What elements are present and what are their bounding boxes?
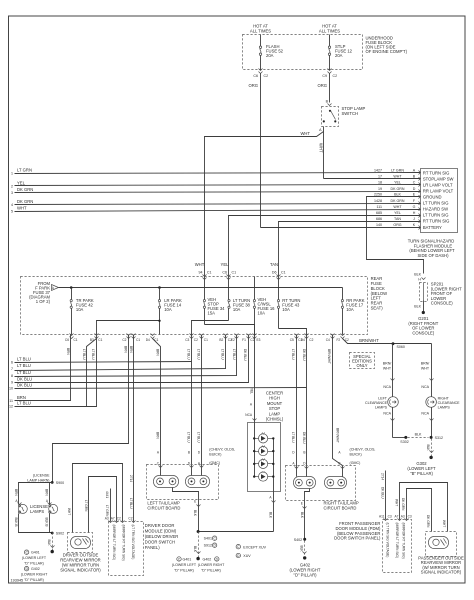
fuse STLP FUSE 12 20A xyxy=(328,35,352,71)
svg-text:OF ENGINE COMP'T): OF ENGINE COMP'T) xyxy=(366,49,408,54)
connector labels along fuse block bottom xyxy=(65,338,349,342)
lamp right clearance xyxy=(426,397,437,408)
svg-text:CIRCUIT BOARD: CIRCUIT BOARD xyxy=(147,506,180,511)
svg-text:BUICK): BUICK) xyxy=(350,453,362,457)
license lamp feed wires xyxy=(19,483,53,505)
svg-text:C4: C4 xyxy=(326,338,330,342)
svg-text:S900: S900 xyxy=(56,481,64,485)
svg-text:G: G xyxy=(413,205,416,209)
wire 6 LT BLU xyxy=(15,362,192,363)
svg-text:193945: 193945 xyxy=(11,579,24,583)
svg-text:LT BLU: LT BLU xyxy=(221,349,225,360)
svg-text:B: B xyxy=(303,450,305,454)
svg-text:BRN/: BRN/ xyxy=(421,362,430,366)
svg-text:C1: C1 xyxy=(98,338,102,342)
svg-text:RT TURN SIG: RT TURN SIG xyxy=(423,219,450,224)
row J 686 TAN xyxy=(376,217,449,224)
svg-text:DK GRN: DK GRN xyxy=(401,498,405,511)
internal wire LT TURN output xyxy=(192,321,229,335)
wire row B WHT from switch to module xyxy=(324,178,421,180)
wire ORG left fuse down to row K xyxy=(260,74,262,228)
wire LT BLU diagonal from B3 connector xyxy=(87,339,97,407)
svg-text:10A: 10A xyxy=(164,307,172,312)
svg-text:BRN: BRN xyxy=(66,348,70,355)
wire DK BLU to right tail board pin B xyxy=(306,335,308,477)
svg-text:YEL: YEL xyxy=(249,388,253,394)
svg-text:LAMPS: LAMPS xyxy=(30,509,44,514)
svg-text:B2: B2 xyxy=(219,338,223,342)
wire BLK SP201 to G201 xyxy=(423,301,425,313)
svg-text:C6: C6 xyxy=(253,74,258,78)
svg-text:"D" PILLAR): "D" PILLAR) xyxy=(24,578,44,582)
svg-text:D4: D4 xyxy=(146,338,150,342)
svg-text:11: 11 xyxy=(9,399,13,403)
svg-text:C9: C9 xyxy=(322,74,327,78)
svg-text:(LT TRN SIG VOLTAGE): (LT TRN SIG VOLTAGE) xyxy=(386,523,390,558)
svg-text:10: 10 xyxy=(9,387,13,391)
svg-text:G402: G402 xyxy=(31,567,40,571)
svg-text:ONLY: ONLY xyxy=(356,363,367,368)
ground G402 xyxy=(303,556,306,559)
wire row E BLK to SP201 xyxy=(367,197,424,274)
svg-text:D: D xyxy=(413,187,416,191)
svg-text:C2: C2 xyxy=(194,338,198,342)
svg-text:C2: C2 xyxy=(309,338,313,342)
row F 1428 DK GRN xyxy=(374,199,449,206)
svg-text:LT BLU: LT BLU xyxy=(197,432,201,443)
svg-text:15A: 15A xyxy=(208,311,216,316)
svg-text:C6: C6 xyxy=(222,271,227,275)
svg-text:DK BLU: DK BLU xyxy=(381,487,385,499)
svg-text:1428: 1428 xyxy=(374,199,382,203)
bus wire from arrow xyxy=(59,287,343,289)
ground G201 xyxy=(422,311,425,314)
svg-text:4: 4 xyxy=(11,203,13,207)
svg-text:DK GRN: DK GRN xyxy=(391,199,405,203)
svg-text:CLEARANCE: CLEARANCE xyxy=(365,401,388,405)
svg-text:6: 6 xyxy=(11,361,13,365)
svg-text:C1: C1 xyxy=(207,271,212,275)
svg-text:PANEL): PANEL) xyxy=(145,545,160,550)
svg-text:5: 5 xyxy=(11,210,13,214)
svg-text:WHT: WHT xyxy=(383,367,392,371)
svg-text:DOOR SWITCH: DOOR SWITCH xyxy=(145,540,175,545)
svg-text:DK BLU: DK BLU xyxy=(17,383,32,388)
svg-text:LT TURN SIG: LT TURN SIG xyxy=(423,201,449,206)
svg-text:111: 111 xyxy=(377,205,382,209)
svg-text:10A: 10A xyxy=(233,307,241,312)
svg-text:A7: A7 xyxy=(111,517,115,521)
svg-text:LT BLU: LT BLU xyxy=(291,349,295,360)
svg-text:LAMPS: LAMPS xyxy=(438,406,451,410)
svg-text:BLK: BLK xyxy=(414,305,421,309)
wire to DDM C2 xyxy=(133,335,135,522)
svg-text:DOOR SWITCH PANEL): DOOR SWITCH PANEL) xyxy=(334,536,381,541)
svg-text:NCA: NCA xyxy=(421,412,429,416)
svg-text:WHT: WHT xyxy=(67,508,71,515)
svg-text:C1: C1 xyxy=(204,338,208,342)
footnote grounds block xyxy=(21,551,48,583)
svg-text:LT BLU: LT BLU xyxy=(291,432,295,443)
svg-text:1427: 1427 xyxy=(374,169,382,173)
svg-text:C3: C3 xyxy=(185,338,189,342)
svg-text:H: H xyxy=(413,211,416,215)
svg-text:WHT: WHT xyxy=(442,520,446,527)
wire 8 LT BLU xyxy=(15,335,237,377)
svg-text:CONSOLE): CONSOLE) xyxy=(412,330,434,335)
left clearance lamps branch xyxy=(365,344,405,438)
svg-text:TAN: TAN xyxy=(394,217,401,221)
svg-text:LT GRN: LT GRN xyxy=(84,500,88,512)
svg-text:CIRCUIT BOARD: CIRCUIT BOARD xyxy=(324,506,357,511)
svg-text:NCA: NCA xyxy=(245,413,253,417)
svg-text:A11: A11 xyxy=(379,515,385,519)
svg-text:LT GRN: LT GRN xyxy=(391,169,404,173)
left board internal ground wire xyxy=(173,488,199,532)
svg-text:BRN/: BRN/ xyxy=(383,362,392,366)
svg-text:EXCEPT XUV: EXCEPT XUV xyxy=(243,545,266,549)
connector C9/C2 under right fuse xyxy=(328,69,332,74)
svg-text:9: 9 xyxy=(11,381,13,385)
svg-text:(GMC): (GMC) xyxy=(350,461,361,465)
svg-text:S902: S902 xyxy=(56,532,64,536)
svg-text:LT GRN: LT GRN xyxy=(17,168,32,173)
internal wire LR PARK output xyxy=(97,321,160,335)
license lamp ground wires xyxy=(19,514,53,533)
svg-text:YEL: YEL xyxy=(17,180,26,185)
wire 11 BRN xyxy=(15,335,71,401)
pins above left tail board xyxy=(157,448,236,468)
svg-text:(LOWER RIGHT: (LOWER RIGHT xyxy=(21,573,48,577)
svg-text:S312: S312 xyxy=(435,436,443,440)
svg-text:2: 2 xyxy=(11,184,13,188)
svg-text:19: 19 xyxy=(378,187,382,191)
driver door module box xyxy=(109,522,144,576)
svg-text:10A: 10A xyxy=(76,307,84,312)
right clearance lamps branch xyxy=(421,344,460,438)
fuse TR PARK FUSE 42 10A xyxy=(70,288,94,335)
bridge wire 1 WHT to PDM A7 xyxy=(400,483,448,532)
splice S302 xyxy=(404,436,407,439)
svg-text:(LICENSE: (LICENSE xyxy=(33,474,50,478)
wire BLK CHMSL output xyxy=(273,493,275,532)
svg-text:STOPLAMP SW: STOPLAMP SW xyxy=(423,177,454,182)
svg-text:S060: S060 xyxy=(397,345,405,349)
svg-text:18: 18 xyxy=(378,181,382,185)
wire LT GRN 4441 to DDM A3 xyxy=(110,489,112,522)
svg-text:DK BLU: DK BLU xyxy=(243,349,247,361)
svg-text:BLK: BLK xyxy=(193,510,197,517)
svg-text:1: 1 xyxy=(11,172,13,176)
svg-text:10A: 10A xyxy=(346,307,354,312)
svg-text:XUV: XUV xyxy=(243,554,251,558)
ground note G401 left xyxy=(172,557,197,573)
svg-text:WHT: WHT xyxy=(393,205,402,209)
svg-text:RR LAMP VOLT: RR LAMP VOLT xyxy=(423,189,454,194)
svg-text:BRN/WHT: BRN/WHT xyxy=(336,428,340,443)
svg-text:BLK: BLK xyxy=(47,540,51,547)
dashed wire BLK to G302 xyxy=(431,439,433,458)
svg-text:E: E xyxy=(194,500,196,504)
splice S312 xyxy=(430,436,433,439)
svg-text:G401: G401 xyxy=(183,558,192,562)
dashed wire BLK S302 to S312 xyxy=(408,437,429,439)
svg-text:DK BLU: DK BLU xyxy=(302,349,306,361)
svg-text:LT BLU: LT BLU xyxy=(197,349,201,360)
svg-text:(CHMSL): (CHMSL) xyxy=(266,417,284,422)
svg-text:G402: G402 xyxy=(203,558,212,562)
fuse LR PARK FUSE 14 10A xyxy=(158,288,182,321)
wire 9 DK BLU xyxy=(15,335,249,383)
turn signal/hazard flasher module box xyxy=(421,169,458,233)
CHMSL box xyxy=(248,423,281,492)
svg-text:(LOWER LEFT: (LOWER LEFT xyxy=(172,563,197,567)
svg-text:LT BLU: LT BLU xyxy=(129,498,133,509)
svg-text:C2: C2 xyxy=(117,517,121,521)
svg-text:LT BLU: LT BLU xyxy=(232,349,236,360)
fuse RR PARK FUSE 17 10A xyxy=(341,288,364,335)
svg-text:B: B xyxy=(188,450,190,454)
svg-text:"D" PILLAR): "D" PILLAR) xyxy=(174,569,194,573)
passenger outside mirror box xyxy=(426,532,457,557)
svg-text:ORG: ORG xyxy=(248,83,258,88)
svg-text:BRN: BRN xyxy=(129,346,133,353)
svg-text:C5: C5 xyxy=(290,338,294,342)
svg-text:17: 17 xyxy=(378,175,382,179)
svg-text:C2: C2 xyxy=(333,74,338,78)
svg-text:MODULE (DDM): MODULE (DDM) xyxy=(145,529,177,534)
svg-text:(LOWER LEFT: (LOWER LEFT xyxy=(22,556,47,560)
svg-text:LT BLU: LT BLU xyxy=(91,349,95,360)
svg-text:C2: C2 xyxy=(128,517,132,521)
svg-text:LT BLU: LT BLU xyxy=(187,432,191,443)
row E 2250 BLK xyxy=(374,193,442,200)
fuse FLASH FUSE 52 20A xyxy=(259,35,283,71)
svg-text:LT BLU: LT BLU xyxy=(17,357,31,362)
svg-text:(CHEVY, OLDS,: (CHEVY, OLDS, xyxy=(350,448,376,452)
svg-text:E: E xyxy=(301,502,303,506)
wire 12 LT BLU xyxy=(15,335,97,407)
CHMSL LED 3 xyxy=(253,459,274,469)
svg-text:C6: C6 xyxy=(65,338,69,342)
svg-text:NCA: NCA xyxy=(383,412,391,416)
svg-text:DK BLU: DK BLU xyxy=(17,377,32,382)
svg-text:(CHEVY, OLDS,: (CHEVY, OLDS, xyxy=(209,448,235,452)
license lamp left xyxy=(18,504,27,513)
svg-text:D4: D4 xyxy=(301,338,305,342)
svg-text:685: 685 xyxy=(376,211,382,215)
internal wire RT TURN output xyxy=(279,329,307,335)
lamp left clearance xyxy=(388,397,399,408)
svg-text:LT BLU: LT BLU xyxy=(17,370,31,375)
svg-text:3: 3 xyxy=(11,191,13,195)
wire 3 DK GRN xyxy=(15,192,421,193)
svg-text:LT BLU: LT BLU xyxy=(187,349,191,360)
wire WHT from switch A left to fuse block xyxy=(205,127,324,277)
svg-text:S401: S401 xyxy=(204,537,212,541)
svg-text:S912: S912 xyxy=(204,544,212,548)
svg-text:H: H xyxy=(418,278,421,282)
pins above right tail board xyxy=(292,448,375,469)
svg-text:2714: 2714 xyxy=(381,473,385,480)
svg-text:"D" PILLAR): "D" PILLAR) xyxy=(201,569,221,573)
wire 4 DK GRN xyxy=(15,204,421,205)
svg-text:A7: A7 xyxy=(394,515,398,519)
fuse RT TURN FUSE 43 10A xyxy=(277,277,300,329)
svg-text:CONSOLE): CONSOLE) xyxy=(431,301,453,306)
svg-text:BLK: BLK xyxy=(415,433,422,437)
legend except XUV xyxy=(236,545,240,549)
internal wire VEH STOP output to CHMSL exit xyxy=(205,325,255,335)
row B 17 WHT xyxy=(378,175,454,182)
svg-text:NCA: NCA xyxy=(421,385,429,389)
svg-text:G401: G401 xyxy=(31,551,40,555)
svg-text:C1: C1 xyxy=(74,338,78,342)
svg-text:HAZARD SW: HAZARD SW xyxy=(423,207,448,212)
wire LT BLU to left tail board pin B xyxy=(191,335,193,476)
svg-text:YEL: YEL xyxy=(221,262,230,267)
svg-text:RT TURN SIG: RT TURN SIG xyxy=(423,170,450,175)
CHMSL LED 4 xyxy=(253,472,274,482)
wire DK BLU 2714 to PDM A11 xyxy=(385,471,387,520)
svg-text:SIGNAL INDICATOR): SIGNAL INDICATOR) xyxy=(421,570,462,575)
svg-text:(MIRROR RT TURN SIG): (MIRROR RT TURN SIG) xyxy=(401,523,405,559)
svg-text:2714: 2714 xyxy=(129,475,133,482)
splice S060 xyxy=(392,342,395,345)
svg-text:BRN: BRN xyxy=(156,432,160,439)
svg-text:BRN: BRN xyxy=(156,349,160,356)
svg-text:C: C xyxy=(413,181,416,185)
svg-text:LAMPS: LAMPS xyxy=(375,406,388,410)
bridge wire 1 WHT to DDM C2 xyxy=(73,464,123,533)
svg-text:S402: S402 xyxy=(294,538,302,542)
svg-text:(LT TRN SIG VOLTAGE): (LT TRN SIG VOLTAGE) xyxy=(131,525,135,560)
CHMSL internal right bus xyxy=(273,439,275,493)
svg-text:BRN: BRN xyxy=(124,346,128,353)
svg-text:D6: D6 xyxy=(272,271,277,275)
svg-text:(MIRROR LT TURN SIG): (MIRROR LT TURN SIG) xyxy=(395,523,399,558)
wire YEL to CHMSL xyxy=(254,335,256,423)
svg-text:E3: E3 xyxy=(257,338,261,342)
svg-text:SEAT): SEAT) xyxy=(371,306,384,311)
bridge wire 2 DK GRN to PDM A3 xyxy=(407,489,432,532)
svg-text:J: J xyxy=(413,217,415,221)
svg-text:686: 686 xyxy=(376,217,382,221)
wire row H YEL down to fuse block xyxy=(229,216,421,277)
row C 18 YEL xyxy=(378,181,453,188)
svg-text:BLK B: BLK B xyxy=(14,518,18,527)
svg-text:CLEARANCE: CLEARANCE xyxy=(438,401,461,405)
svg-text:BRN/WHT: BRN/WHT xyxy=(327,349,331,364)
svg-text:LT BLU: LT BLU xyxy=(17,363,31,368)
svg-text:LT TURN SIG: LT TURN SIG xyxy=(423,213,449,218)
wire 1 LT GRN xyxy=(15,173,421,174)
svg-text:A3: A3 xyxy=(105,517,109,521)
connector C6/C2 under left fuse xyxy=(259,69,263,74)
svg-text:BLK: BLK xyxy=(414,273,421,277)
wire row K ORG to module xyxy=(261,227,421,229)
arrow A from F PARK xyxy=(52,285,59,291)
right tail lamp circuit board xyxy=(286,466,356,501)
dashed BLK to G402 xyxy=(304,541,306,558)
svg-text:(MIRROR LT TURN SIG): (MIRROR LT TURN SIG) xyxy=(112,525,116,560)
wire BRN/WHT to right tail board pin A xyxy=(333,335,343,477)
svg-text:C1: C1 xyxy=(232,271,237,275)
svg-text:1 OF 2): 1 OF 2) xyxy=(36,299,51,304)
svg-text:140: 140 xyxy=(376,223,382,227)
svg-text:2250: 2250 xyxy=(374,193,382,197)
svg-text:20A: 20A xyxy=(266,53,274,58)
svg-text:BLK: BLK xyxy=(394,193,401,197)
right board bulb 2 xyxy=(325,477,347,489)
svg-text:A3: A3 xyxy=(401,515,405,519)
svg-text:BRN: BRN xyxy=(44,489,48,496)
svg-text:BUICK): BUICK) xyxy=(209,453,221,457)
svg-text:DRIVER DOOR: DRIVER DOOR xyxy=(145,523,175,528)
svg-text:WHT: WHT xyxy=(393,175,402,179)
svg-text:C1: C1 xyxy=(136,338,140,342)
splice S402 xyxy=(303,538,306,541)
svg-text:(MIRROR RT TURN SIG): (MIRROR RT TURN SIG) xyxy=(122,525,126,561)
svg-text:20A: 20A xyxy=(335,53,343,58)
svg-text:C2: C2 xyxy=(264,74,269,78)
splice S902 xyxy=(51,532,54,535)
svg-text:BATTERY: BATTERY xyxy=(423,225,442,230)
svg-text:10A: 10A xyxy=(258,311,266,316)
svg-text:C3: C3 xyxy=(408,515,412,519)
wire ORG right fuse down to stop lamp switch xyxy=(329,74,331,103)
svg-text:WHT: WHT xyxy=(300,131,310,136)
svg-text:WHT: WHT xyxy=(421,367,430,371)
stop lamp switch xyxy=(322,107,339,127)
ground note G402 right xyxy=(198,557,225,573)
svg-text:"D" PILLAR): "D" PILLAR) xyxy=(294,573,318,578)
svg-text:LT BLU: LT BLU xyxy=(82,349,86,360)
svg-text:LR LAMP VOLT: LR LAMP VOLT xyxy=(423,182,453,187)
svg-text:DK GRN: DK GRN xyxy=(426,515,430,528)
svg-text:F2: F2 xyxy=(336,338,340,342)
row A 1427 LT GRN xyxy=(374,169,449,176)
svg-text:LAMP HARN): LAMP HARN) xyxy=(27,478,49,482)
dashed BLK license ground xyxy=(52,533,54,552)
row H 685 YEL xyxy=(376,211,449,218)
svg-text:BLK: BLK xyxy=(268,512,272,519)
svg-text:BLK: BLK xyxy=(426,445,430,452)
svg-text:ORG: ORG xyxy=(393,223,401,227)
splice S401 xyxy=(197,530,200,533)
right board internal ground wire xyxy=(305,489,310,540)
fuse block bottom connectors xyxy=(70,334,345,339)
svg-text:DK GRN: DK GRN xyxy=(391,187,405,191)
fuse VEH C/WSL FUSE 16 10A xyxy=(253,277,275,335)
svg-text:DK GRN: DK GRN xyxy=(17,199,33,204)
top connector chevrons xyxy=(203,275,207,280)
svg-text:7: 7 xyxy=(11,367,13,371)
svg-text:C1: C1 xyxy=(281,271,286,275)
right board bulb 1 xyxy=(294,477,316,489)
rear fuse block dashed box xyxy=(21,277,368,335)
splice S900 xyxy=(51,481,54,484)
svg-text:(LOWER RIGHT: (LOWER RIGHT xyxy=(198,563,225,567)
fuse VEH STOP FUSE 34 15A xyxy=(203,277,225,325)
row K 140 ORG xyxy=(376,223,442,230)
svg-text:ALL TIMES: ALL TIMES xyxy=(250,29,271,34)
BLK wire joining boards xyxy=(199,531,274,533)
svg-text:BLK B: BLK B xyxy=(44,518,48,527)
svg-text:BLK: BLK xyxy=(300,546,304,553)
underhood fuse block dashed box xyxy=(243,35,363,70)
wire WHT switch A down to row B xyxy=(323,132,325,179)
